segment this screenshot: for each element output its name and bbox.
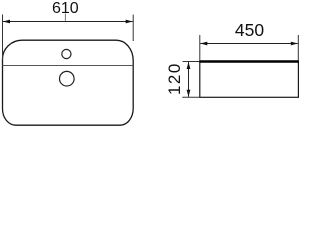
svg-text:120: 120 — [165, 62, 184, 95]
basin drain hole — [60, 71, 75, 86]
dim 610 arrow right — [126, 20, 133, 24]
svg-text:450: 450 — [235, 20, 264, 40]
dim 610 extension line right — [132, 15, 134, 42]
dim 120 arrow up — [187, 62, 191, 69]
dim 120 extension line bottom — [182, 96, 199, 98]
side-view body — [200, 62, 299, 98]
dim 120 extension line top — [183, 61, 200, 63]
dim 610 arrow left — [3, 20, 10, 24]
basin top-view outline — [3, 40, 134, 125]
dim 450 extension line right — [297, 35, 299, 61]
dim 450 arrow left — [200, 42, 207, 46]
dim 450 line — [200, 43, 297, 45]
faucet hole — [62, 49, 71, 58]
dim 610 extension line left — [2, 15, 4, 60]
dim 120 arrow down — [187, 90, 191, 97]
dim 610 line — [3, 21, 133, 23]
deck line — [3, 65, 134, 67]
dim 120 line — [188, 62, 190, 97]
dim 610 center tick — [64, 14, 66, 21]
dim 450 extension line left — [199, 35, 201, 61]
dim 450 arrow right — [291, 42, 298, 46]
side-view rim top (thick) — [199, 60, 299, 62]
